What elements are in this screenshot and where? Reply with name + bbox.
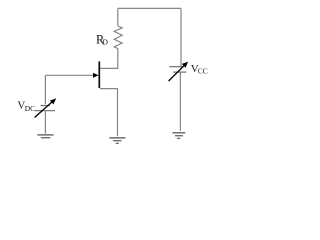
source VDC plate (short, top) xyxy=(41,105,50,107)
wire: source lead xyxy=(100,89,118,137)
ground (VCC) bar 3 xyxy=(177,137,180,139)
wire: top rail xyxy=(118,7,181,9)
wire: VCC top lead xyxy=(180,8,182,66)
ground (VCC) bar 1 xyxy=(172,132,185,134)
source VDC variable arrow xyxy=(35,98,57,117)
svg-text:VCC: VCC xyxy=(191,63,208,76)
wire: VCC bottom lead xyxy=(179,73,181,131)
svg-text:RD: RD xyxy=(96,33,108,47)
svg-text:VDC: VDC xyxy=(17,100,35,113)
ground (VDC) bar 2 xyxy=(41,137,51,139)
wire: RD bottom lead and drain lead xyxy=(100,49,118,69)
wire: VDC top lead xyxy=(44,75,46,104)
resistor RD xyxy=(114,26,122,49)
ground (source) bar 2 xyxy=(113,140,121,142)
ground (source) bar 1 xyxy=(109,137,125,139)
ground (VDC) bar 1 xyxy=(37,134,53,136)
source VDC plate (long, bottom) xyxy=(35,110,55,112)
source VCC plate (upper) xyxy=(169,66,183,68)
transistor Q1 gate arrowhead xyxy=(93,73,99,78)
source VCC plate (lower) xyxy=(173,71,186,73)
ground (VCC) bar 2 xyxy=(175,135,183,137)
wire: RD top lead xyxy=(117,8,119,26)
source VCC variable arrow xyxy=(169,62,189,81)
transistor Q1 channel bar xyxy=(98,61,100,88)
wire: VDC bottom lead xyxy=(44,111,46,133)
ground (source) bar 3 xyxy=(116,142,119,144)
wire: gate lead from VDC xyxy=(45,74,94,76)
